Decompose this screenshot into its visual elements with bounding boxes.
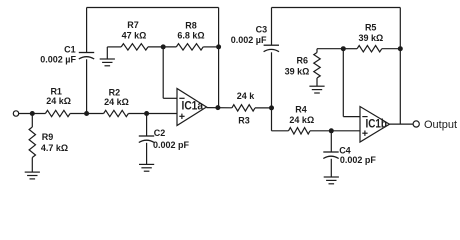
resistor R9 — [29, 127, 35, 158]
resistor R5 — [357, 46, 382, 52]
wire junction to R5 — [343, 48, 357, 50]
svg-text:R9: R9 — [42, 132, 54, 142]
ground drop for R7 — [106, 47, 108, 59]
ground below R6 — [309, 86, 324, 93]
top feedback rail stage 2 — [272, 7, 401, 9]
svg-text:0.002 µF: 0.002 µF — [40, 55, 76, 65]
wire R1 to R2 — [70, 113, 104, 115]
wire node B to C2 — [146, 114, 148, 137]
node IC1a output junction — [215, 105, 220, 110]
node D (R4/C4/IC1b+) — [329, 128, 334, 133]
svg-text:0.002 pF: 0.002 pF — [153, 140, 190, 150]
wire to R6 — [316, 49, 318, 53]
wire into IC1a minus pin — [163, 97, 177, 99]
op-amp IC1b — [360, 107, 390, 143]
svg-text:0.002 pF: 0.002 pF — [340, 155, 377, 165]
wire divider to IC1b minus — [342, 49, 344, 117]
wire R2 to IC1a plus input — [128, 113, 177, 115]
capacitor C2 — [139, 136, 154, 143]
wire R6 top to junction — [317, 48, 343, 50]
node R8/feedback junction — [216, 44, 221, 49]
svg-text:R3: R3 — [238, 116, 250, 126]
wire node C down — [271, 108, 273, 131]
wire into IC1b minus pin — [343, 116, 360, 118]
input terminal — [13, 111, 18, 116]
node R6/R5 junction — [341, 46, 346, 51]
svg-text:24 k: 24 k — [237, 91, 256, 101]
svg-text:R8: R8 — [185, 20, 197, 30]
right vertical wire stage 2 — [399, 8, 401, 125]
svg-text:C2: C2 — [154, 128, 166, 138]
resistor R7 — [121, 44, 148, 50]
wire R9 to ground — [31, 158, 33, 173]
svg-text:C3: C3 — [256, 25, 268, 35]
capacitor C4 — [323, 152, 338, 159]
wire C4 to ground — [330, 159, 332, 177]
svg-text:R1: R1 — [50, 87, 62, 97]
svg-text:39 kΩ: 39 kΩ — [359, 33, 384, 43]
wire divider to IC1a minus — [162, 47, 164, 98]
wire R7 to R8 — [148, 46, 176, 48]
output terminal — [413, 121, 419, 127]
node R5/feedback junction — [398, 46, 403, 51]
ground below C4 — [324, 177, 339, 184]
wire R5 to right vertical — [382, 48, 401, 50]
svg-text:Output: Output — [424, 119, 457, 131]
node input/R9 junction — [30, 111, 35, 116]
wire C1 to node A — [86, 59, 88, 113]
svg-text:R6: R6 — [296, 56, 308, 66]
svg-text:24 kΩ: 24 kΩ — [289, 115, 314, 125]
svg-text:24 kΩ: 24 kΩ — [46, 96, 71, 106]
svg-text:39 kΩ: 39 kΩ — [285, 66, 310, 76]
top feedback rail stage 1 — [87, 7, 219, 9]
wire R6 to ground — [316, 78, 318, 86]
right vertical wire stage 1 — [218, 8, 220, 108]
wire ground to R7 — [107, 46, 121, 48]
wire R4 to IC1b plus input — [310, 130, 360, 132]
svg-text:6.8 kΩ: 6.8 kΩ — [177, 30, 204, 40]
svg-text:24 kΩ: 24 kΩ — [104, 97, 129, 107]
node R7/R8 junction — [161, 44, 166, 49]
wire IC1a output — [207, 107, 232, 109]
wire node D to C4 — [330, 131, 332, 152]
wire C2 to ground — [146, 143, 148, 165]
svg-text:R7: R7 — [127, 20, 139, 30]
resistor R8 — [176, 44, 203, 50]
wire R8 to right vertical — [203, 46, 218, 48]
node C (R3/C3/R4) — [269, 105, 274, 110]
svg-text:C1: C1 — [64, 45, 76, 55]
wire to R4 — [272, 130, 289, 132]
wire C3 to top rail 2 — [271, 8, 273, 46]
wire IC1b output to terminal — [390, 123, 414, 125]
ground below C2 — [139, 164, 154, 171]
wire node to R9 — [31, 114, 33, 128]
wire R3 to node C — [255, 107, 272, 109]
svg-text:IC1a: IC1a — [182, 99, 204, 113]
op-amp IC1a — [177, 89, 207, 126]
capacitor C1 — [79, 53, 94, 60]
node B (R2/C2/IC1a+) — [144, 111, 149, 116]
svg-text:IC1b: IC1b — [366, 116, 388, 130]
svg-text:4.7 kΩ: 4.7 kΩ — [41, 143, 68, 153]
svg-text:47 kΩ: 47 kΩ — [122, 30, 147, 40]
svg-text:R2: R2 — [109, 87, 121, 97]
svg-text:R5: R5 — [365, 22, 377, 32]
wire C1 to top rail — [86, 8, 88, 53]
resistor R2 — [104, 110, 129, 116]
ground at R7 left — [100, 59, 115, 66]
node A (R1/R2/C1) — [84, 111, 89, 116]
wire input to R1 — [19, 113, 46, 115]
resistor R1 — [45, 110, 70, 116]
capacitor C3 — [264, 45, 279, 52]
svg-text:0.002 µF: 0.002 µF — [231, 35, 267, 45]
resistor R3 — [232, 105, 255, 111]
svg-text:R4: R4 — [295, 104, 307, 114]
wire C3 to node C — [271, 52, 273, 108]
ground below R9 — [25, 172, 40, 179]
resistor R6 — [314, 53, 320, 79]
resistor R4 — [289, 128, 311, 134]
